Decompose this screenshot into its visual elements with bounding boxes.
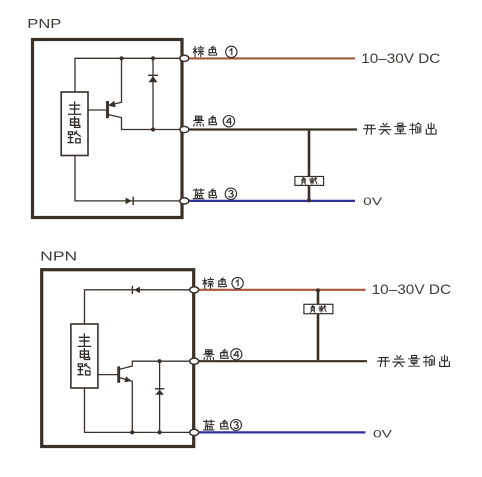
transistor Q1 base bar [106,101,109,118]
black output wire (PNP) [186,128,357,130]
load branch vertical (NPN) [317,291,320,360]
junction: diode branch on 0V rail (NPN) [158,430,162,434]
wire: 0V return from main circuit (NPN) [85,388,191,432]
label: brown wire 1 (PNP) [193,46,204,57]
transistor Q2 NPN emitter arrow [124,376,131,382]
black output wire (NPN) [196,360,367,362]
junction: diode branch on output rail (NPN) [158,359,162,363]
transistor Q2 base bar [117,366,120,382]
load box (NPN) [304,304,333,313]
junction: emitter on 0V rail (NPN) [130,430,134,434]
svg-text:10–30V DC: 10–30V DC [361,50,440,66]
terminal pin 1 brown (NPN) [190,287,199,293]
wire: emitter branch vertical (PNP) [110,58,122,105]
svg-text:0V: 0V [363,196,383,208]
sensor outline box (NPN) [42,270,194,447]
main circuit block U2 (NPN) [71,324,98,388]
junction: emitter branch on Vcc rail (PNP) [119,56,123,60]
brown wire to 10-30V DC (NPN) [196,289,366,291]
text switch output (NPN) [378,355,450,366]
terminal pin 1 brown (PNP) [180,55,189,61]
wire: Vcc rail from main circuit to brown terminal (PNP) [75,58,180,92]
transistor Q1 PNP emitter arrow [108,101,116,107]
text switch output (PNP) [364,123,436,134]
terminal pin 3 blue (PNP) [180,198,189,204]
svg-text:0V: 0V [373,428,393,440]
wire: Q2 emitter to 0V rail (NPN) [120,378,133,433]
blue 0V wire (PNP) [186,200,355,202]
diode D3 in Vcc wire (pointing left) [131,286,133,294]
sensor outline box (PNP) [33,40,183,218]
wire: base from main circuit to Q2 (NPN) [98,374,117,376]
wire: Vcc rail from main circuit to brown terminal (NPN) [85,290,191,324]
diode D2 in 0V wire (pointing right) [126,198,132,205]
blue 0V wire (NPN) [196,431,366,433]
wire: 0V return from main circuit (PNP) [75,156,180,201]
svg-text:NPN: NPN [40,248,77,263]
label: black wire 4 (NPN) [204,350,214,360]
main circuit block U1 (PNP) [61,92,88,156]
terminal pin 4 black (NPN) [190,358,199,364]
terminal pin 4 black (PNP) [180,126,189,132]
diode D1 (cathode bar up) [148,74,158,76]
wire: protection diode branch vertical (NPN) [159,361,161,432]
label: brown wire 1 (NPN) [203,278,214,289]
junction: diode branch on Vcc rail (PNP) [151,56,155,60]
label: black wire 4 (PNP) [194,116,204,126]
wire: protection diode branch vertical (PNP) [152,58,154,129]
terminal pin 3 blue (NPN) [190,429,199,435]
svg-text:10–30V DC: 10–30V DC [372,281,452,297]
label: blue wire 3 (PNP) [193,189,204,199]
junction: diode branch on output rail (PNP) [151,127,155,131]
wire: Q2 collector to output rail (NPN) [120,361,190,369]
load box (PNP) [295,177,324,186]
load branch vertical (PNP) [308,131,311,201]
wire: base from main circuit to Q1 [88,109,106,111]
svg-text:PNP: PNP [27,16,61,31]
wire: Q1 collector to output rail [109,115,181,130]
label: blue wire 3 (NPN) [204,420,215,430]
brown wire to 10-30V DC (PNP) [186,57,355,59]
diode D4 (cathode bar up) [155,388,164,390]
